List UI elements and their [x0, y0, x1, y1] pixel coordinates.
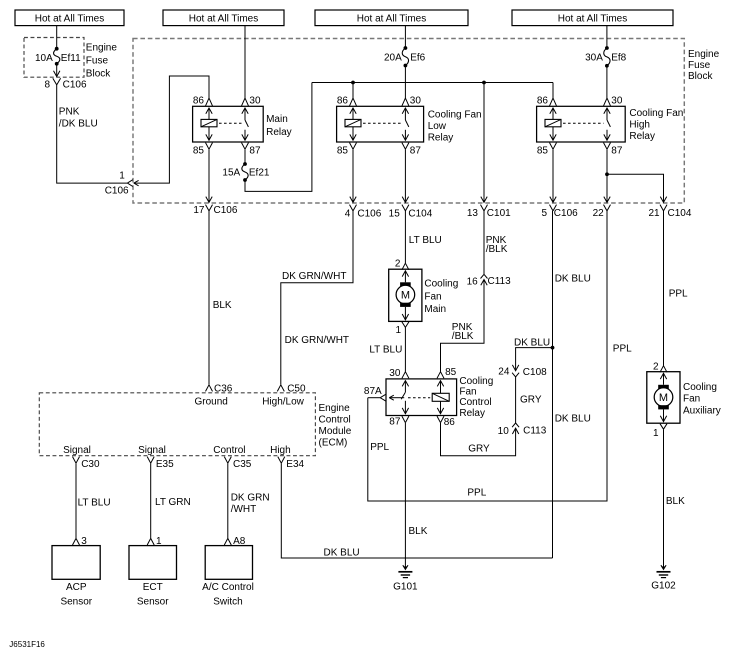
svg-text:C106: C106 [214, 205, 238, 216]
svg-text:E35: E35 [156, 459, 174, 470]
svg-text:Ef11: Ef11 [61, 53, 81, 64]
svg-text:2: 2 [395, 258, 401, 269]
svg-text:87: 87 [389, 416, 401, 427]
svg-text:10A: 10A [35, 53, 53, 64]
svg-text:GRY: GRY [520, 395, 542, 406]
svg-text:30A: 30A [585, 52, 603, 63]
svg-text:A/C Control: A/C Control [202, 582, 254, 593]
svg-text:30: 30 [611, 96, 623, 107]
svg-text:M: M [401, 290, 410, 302]
svg-text:Relay: Relay [459, 408, 485, 419]
svg-text:Cooling: Cooling [683, 382, 717, 393]
svg-text:C108: C108 [523, 367, 547, 378]
svg-text:Relay: Relay [266, 127, 292, 138]
svg-text:High: High [270, 445, 291, 456]
svg-text:DK BLU: DK BLU [555, 274, 591, 285]
svg-text:J6531F16: J6531F16 [9, 640, 45, 649]
svg-text:4: 4 [345, 209, 351, 220]
svg-text:87: 87 [249, 146, 261, 157]
svg-text:8: 8 [45, 80, 51, 91]
svg-text:G102: G102 [651, 580, 676, 591]
svg-text:Control: Control [319, 415, 351, 426]
svg-text:C30: C30 [81, 459, 100, 470]
svg-text:86: 86 [337, 96, 349, 107]
svg-text:13: 13 [467, 208, 479, 219]
svg-text:C113: C113 [488, 276, 512, 287]
svg-text:16: 16 [467, 276, 479, 287]
svg-text:Relay: Relay [428, 133, 454, 144]
svg-text:Fan: Fan [424, 291, 441, 302]
svg-text:17: 17 [193, 205, 205, 216]
svg-text:Hot at All Times: Hot at All Times [189, 13, 258, 24]
svg-text:Main: Main [266, 114, 288, 125]
svg-text:1: 1 [653, 428, 659, 439]
svg-text:24: 24 [498, 367, 510, 378]
svg-text:C104: C104 [668, 208, 692, 219]
svg-text:Ef8: Ef8 [611, 52, 626, 63]
svg-text:C106: C106 [63, 80, 87, 91]
svg-text:/WHT: /WHT [231, 504, 257, 515]
svg-text:Switch: Switch [213, 596, 242, 607]
svg-text:2: 2 [653, 361, 659, 372]
svg-text:LT BLU: LT BLU [78, 498, 111, 509]
svg-text:C106: C106 [554, 208, 578, 219]
svg-text:C104: C104 [408, 209, 432, 220]
svg-text:Ef21: Ef21 [249, 168, 270, 179]
svg-text:High: High [629, 120, 650, 131]
svg-text:30: 30 [389, 368, 401, 379]
svg-text:G101: G101 [393, 582, 418, 593]
svg-text:15A: 15A [222, 168, 240, 179]
svg-text:22: 22 [593, 208, 605, 219]
svg-text:Fuse: Fuse [688, 60, 711, 71]
svg-text:30: 30 [249, 96, 261, 107]
svg-text:Engine: Engine [86, 43, 118, 54]
svg-text:Hot at All Times: Hot at All Times [35, 13, 104, 24]
svg-text:Engine: Engine [688, 49, 720, 60]
svg-text:BLK: BLK [666, 496, 685, 507]
svg-text:DK BLU: DK BLU [324, 547, 360, 558]
svg-text:Signal: Signal [138, 445, 166, 456]
svg-text:Engine: Engine [319, 403, 351, 414]
svg-text:PPL: PPL [613, 344, 632, 355]
svg-text:Auxiliary: Auxiliary [683, 406, 721, 417]
svg-text:Fan: Fan [683, 394, 700, 405]
svg-text:Cooling: Cooling [459, 376, 493, 387]
svg-text:1: 1 [119, 171, 125, 182]
svg-text:High/Low: High/Low [262, 397, 304, 408]
svg-text:GRY: GRY [468, 444, 490, 455]
svg-text:Cooling: Cooling [424, 279, 458, 290]
svg-text:20A: 20A [384, 52, 402, 63]
svg-text:87A: 87A [364, 386, 382, 397]
svg-text:ECT: ECT [143, 582, 163, 593]
svg-text:M: M [659, 392, 668, 404]
svg-text:Hot at All Times: Hot at All Times [558, 13, 627, 24]
svg-text:86: 86 [444, 417, 456, 428]
svg-text:LT BLU: LT BLU [409, 235, 442, 246]
svg-text:85: 85 [337, 146, 349, 157]
svg-text:Fuse: Fuse [86, 56, 109, 67]
svg-text:DK BLU: DK BLU [555, 413, 591, 424]
svg-text:DK GRN/WHT: DK GRN/WHT [282, 271, 346, 282]
svg-text:/BLK: /BLK [452, 331, 474, 342]
svg-text:5: 5 [541, 208, 547, 219]
svg-text:BLK: BLK [409, 526, 428, 537]
svg-text:Main: Main [424, 304, 446, 315]
svg-text:C106: C106 [105, 185, 129, 196]
svg-text:Ground: Ground [195, 396, 228, 407]
svg-text:C106: C106 [357, 209, 381, 220]
svg-text:Relay: Relay [629, 131, 655, 142]
svg-text:1: 1 [395, 325, 401, 336]
svg-text:C113: C113 [523, 425, 547, 436]
svg-text:21: 21 [648, 208, 660, 219]
svg-text:/BLK: /BLK [486, 244, 508, 255]
svg-text:30: 30 [410, 96, 422, 107]
svg-text:Sensor: Sensor [137, 596, 169, 607]
svg-text:C101: C101 [487, 208, 511, 219]
svg-text:Fan: Fan [459, 387, 476, 398]
svg-text:DK GRN: DK GRN [231, 492, 270, 503]
svg-text:Block: Block [86, 69, 111, 80]
svg-text:(ECM): (ECM) [319, 437, 348, 448]
svg-text:Control: Control [213, 445, 245, 456]
svg-text:BLK: BLK [213, 300, 232, 311]
svg-text:C35: C35 [233, 459, 252, 470]
svg-text:Block: Block [688, 71, 713, 82]
svg-text:Control: Control [459, 397, 491, 408]
svg-text:Low: Low [428, 121, 447, 132]
svg-text:Signal: Signal [63, 445, 91, 456]
svg-text:PNK: PNK [59, 107, 80, 118]
svg-text:PPL: PPL [669, 289, 688, 300]
svg-text:85: 85 [445, 367, 457, 378]
svg-text:Sensor: Sensor [60, 596, 92, 607]
svg-text:Module: Module [319, 426, 352, 437]
svg-text:85: 85 [537, 146, 549, 157]
svg-text:Ef6: Ef6 [410, 52, 425, 63]
svg-text:87: 87 [410, 146, 422, 157]
svg-text:DK GRN/WHT: DK GRN/WHT [285, 335, 349, 346]
svg-text:ACP: ACP [66, 582, 87, 593]
svg-text:PPL: PPL [370, 442, 389, 453]
svg-text:Cooling Fan: Cooling Fan [629, 108, 683, 119]
svg-text:LT BLU: LT BLU [369, 344, 402, 355]
svg-text:15: 15 [389, 209, 401, 220]
svg-text:Cooling Fan: Cooling Fan [428, 110, 482, 121]
svg-text:87: 87 [611, 146, 623, 157]
svg-text:PPL: PPL [467, 488, 486, 499]
svg-text:/DK BLU: /DK BLU [59, 119, 98, 130]
svg-text:LT GRN: LT GRN [155, 497, 191, 508]
svg-text:85: 85 [193, 146, 205, 157]
svg-text:86: 86 [193, 96, 205, 107]
svg-text:Hot at All Times: Hot at All Times [357, 13, 426, 24]
svg-text:86: 86 [537, 96, 549, 107]
svg-text:C50: C50 [287, 384, 306, 395]
svg-text:10: 10 [498, 426, 510, 437]
svg-text:C36: C36 [214, 384, 233, 395]
svg-text:E34: E34 [286, 459, 304, 470]
svg-text:DK BLU: DK BLU [514, 337, 550, 348]
